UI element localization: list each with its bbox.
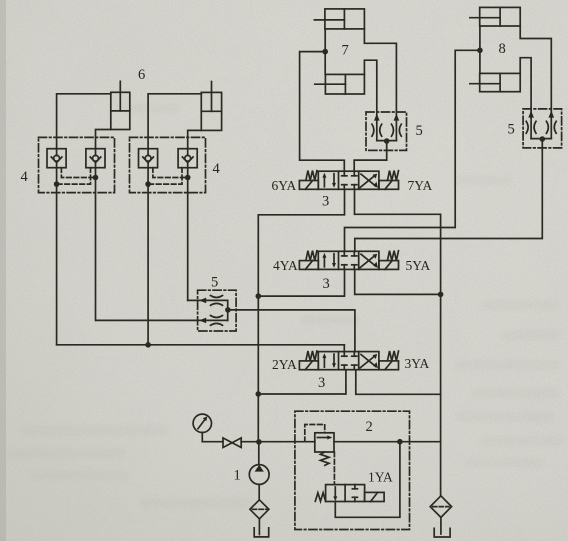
svg-text:6YA: 6YA <box>272 178 297 193</box>
svg-text:1: 1 <box>234 468 241 484</box>
svg-text:8: 8 <box>499 41 506 57</box>
svg-text:1YA: 1YA <box>368 470 393 485</box>
svg-text:4YA: 4YA <box>273 258 298 273</box>
svg-text:2: 2 <box>366 419 373 435</box>
svg-text:4: 4 <box>21 169 29 185</box>
svg-text:7YA: 7YA <box>408 178 433 193</box>
svg-text:2YA: 2YA <box>272 357 297 372</box>
svg-text:5: 5 <box>211 275 218 291</box>
svg-text:5: 5 <box>416 123 423 139</box>
svg-text:5YA: 5YA <box>406 258 431 273</box>
svg-text:3: 3 <box>323 276 330 292</box>
svg-text:3YA: 3YA <box>405 356 430 371</box>
svg-text:5: 5 <box>508 122 515 138</box>
svg-text:4: 4 <box>213 161 221 177</box>
svg-text:3: 3 <box>322 194 329 210</box>
svg-text:6: 6 <box>138 67 145 83</box>
svg-text:7: 7 <box>342 43 349 59</box>
svg-text:3: 3 <box>318 375 325 391</box>
